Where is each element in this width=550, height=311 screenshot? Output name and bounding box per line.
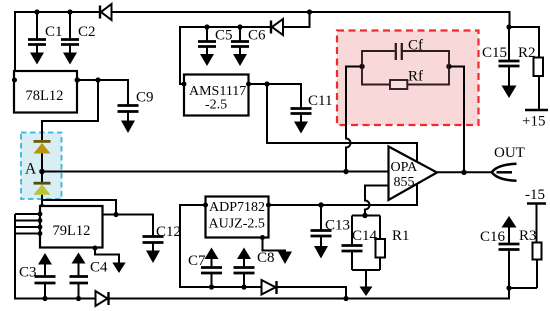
svg-text:C9: C9: [136, 90, 154, 106]
svg-text:R3: R3: [519, 228, 537, 244]
wire 78L12 output to C9: [78, 80, 129, 105]
ground of C11: [294, 115, 308, 134]
node ADP7182 input pin: [266, 203, 271, 208]
resistor R1: [376, 216, 410, 271]
connector OUT: [492, 145, 525, 181]
node on 78L12 left edge: [12, 78, 17, 83]
svg-text:C15: C15: [482, 45, 507, 61]
ground of C15: [502, 67, 517, 98]
regulator U0 78L12: [14, 71, 77, 113]
wire 79L12 left pins: [15, 212, 42, 236]
wire non-inverting input stub with hop: [365, 186, 389, 216]
node 79L12 bottom pin: [93, 246, 98, 251]
svg-text:R2: R2: [518, 45, 536, 61]
feedback network highlight box (pink dashed): [337, 31, 479, 126]
wire +12V to photodiode: [42, 80, 98, 141]
svg-text:ADP7182: ADP7182: [209, 200, 265, 215]
svg-text:AUJZ-2.5: AUJZ-2.5: [209, 217, 265, 232]
node A: [39, 169, 45, 175]
wire feedback right leg to output: [449, 67, 464, 173]
ground of C2: [63, 46, 77, 65]
wire ADP7182 gnd pin to ground: [263, 238, 286, 253]
svg-text:+15: +15: [522, 114, 545, 130]
ground of C7 (up): [205, 248, 219, 260]
svg-text:C1: C1: [45, 24, 63, 40]
node 78L12 input pin: [12, 78, 17, 83]
svg-text:855: 855: [394, 175, 415, 190]
wire -12V branch to C12 node: [42, 200, 116, 215]
wire 79L12 right pin to C12: [103, 215, 154, 237]
resistor R3: [519, 228, 542, 288]
svg-text:A: A: [25, 161, 37, 178]
wire AMS1117 output to C11: [249, 84, 302, 108]
wire 79L12 bottom pin to ground: [95, 248, 119, 263]
capacitor Cf: [362, 38, 449, 67]
diode D3 on mid rail: [262, 280, 277, 295]
capacitor C2: [61, 9, 96, 44]
ground of C16 (up): [502, 216, 517, 228]
wire feedback left leg with hop over -2.5V wire: [346, 67, 362, 172]
ground of C1: [30, 46, 44, 65]
svg-text:C12: C12: [156, 224, 181, 240]
wire top rail with left drop to 78L12: [15, 12, 510, 79]
node inverting bias junction: [362, 213, 367, 218]
svg-text:Cf: Cf: [408, 38, 423, 54]
svg-text:R1: R1: [392, 228, 410, 244]
capacitor C6: [231, 24, 266, 46]
node AMS1117 input pin: [182, 82, 187, 87]
svg-text:C13: C13: [325, 218, 350, 234]
ground of C9: [121, 113, 135, 134]
capacitor C1: [28, 9, 63, 44]
capacitor C16: [480, 227, 520, 291]
capacitor C15: [482, 24, 520, 66]
ground of C4 (up): [72, 253, 86, 264]
node 78L12 output pin: [75, 78, 80, 83]
capacitor C11: [291, 93, 333, 114]
regulator U2 AMS1117-2.5: [184, 75, 249, 116]
capacitor C12: [143, 224, 182, 243]
supply terminal -15: [525, 187, 546, 243]
svg-text:C8: C8: [257, 250, 275, 266]
svg-text:C7: C7: [188, 253, 206, 269]
svg-text:79L12: 79L12: [53, 223, 91, 239]
svg-text:OPA: OPA: [391, 160, 419, 175]
resistor R2: [509, 27, 543, 110]
svg-text:-15: -15: [525, 187, 545, 203]
wire left bus + main bottom rail: [15, 214, 537, 299]
node feedback/input junction: [343, 169, 348, 174]
node photodiode bias branch: [95, 77, 100, 82]
node ADP7182 gnd pin: [260, 235, 265, 240]
capacitor C7: [188, 253, 222, 290]
svg-text:78L12: 78L12: [26, 88, 64, 104]
regulator U3 ADP7182: [206, 197, 269, 238]
node AMS1117 output pin: [246, 82, 251, 87]
supply terminal +15: [522, 110, 548, 130]
node 78L12 output pin: [75, 78, 80, 83]
node mid-rail to main-rail junction: [343, 296, 348, 301]
svg-text:C16: C16: [480, 229, 506, 245]
svg-text:C4: C4: [90, 260, 108, 276]
svg-text:C14: C14: [352, 228, 378, 244]
node C12 branch: [113, 212, 118, 217]
capacitor C9: [118, 90, 154, 112]
ground of C12: [146, 244, 160, 264]
photodiode highlight box (cyan dashed): [21, 133, 62, 200]
wire output: [437, 171, 491, 173]
node top rail branch: [307, 9, 312, 14]
svg-text:OUT: OUT: [494, 145, 525, 161]
wire inverting input from photodiode node A: [42, 171, 389, 173]
ground of C6: [233, 48, 247, 67]
diode D1 on top rail: [100, 4, 112, 20]
capacitor C8: [234, 250, 275, 290]
ground of ADP7182: [278, 252, 292, 265]
capacitor C4: [70, 260, 109, 302]
svg-text:C6: C6: [248, 28, 266, 44]
node 79L12 top pin: [39, 204, 44, 209]
node ADP7182 output pin: [203, 203, 208, 208]
regulator U4 79L12: [40, 206, 103, 248]
op-amp U1 OPA855: [389, 147, 438, 201]
svg-text:C5: C5: [215, 28, 233, 44]
svg-text:-2.5: -2.5: [205, 98, 227, 113]
node output/feedback junction: [461, 170, 466, 175]
svg-text:C2: C2: [78, 24, 96, 40]
diode D4 on main rail: [96, 291, 109, 306]
ground of C13: [314, 237, 328, 259]
feedback network: node left: [359, 64, 364, 69]
ground of C8 (up): [237, 248, 251, 260]
wire second branch to AMS1117: [180, 12, 310, 84]
svg-text:C11: C11: [308, 93, 332, 109]
capacitor C13: [311, 202, 351, 236]
svg-text:Rf: Rf: [408, 69, 423, 85]
wire C14/R1 bottom join: [352, 270, 380, 287]
diode D2 on branch wire: [271, 19, 283, 35]
capacitor C3: [19, 265, 56, 302]
wire ADP7182 left leg + mid rail: [180, 205, 346, 299]
ground of C5: [200, 48, 214, 67]
wire -2.5V supply run to op-amp and ADP7182 output rail: [267, 84, 417, 205]
svg-text:C3: C3: [19, 265, 37, 281]
wire C14/R1 top join: [352, 215, 380, 217]
ground of 79L12: [112, 263, 125, 274]
ground of C14/R1: [360, 287, 373, 297]
node -2.5V branch: [264, 81, 269, 86]
capacitor C5: [198, 24, 233, 46]
capacitor C14: [342, 216, 378, 271]
resistor Rf: [362, 67, 449, 90]
ground of C3 (up): [38, 253, 52, 265]
feedback network: node right: [446, 64, 451, 69]
photodiode PD1 (top): [34, 140, 51, 172]
photodiode PD2 (bottom): [34, 172, 51, 207]
